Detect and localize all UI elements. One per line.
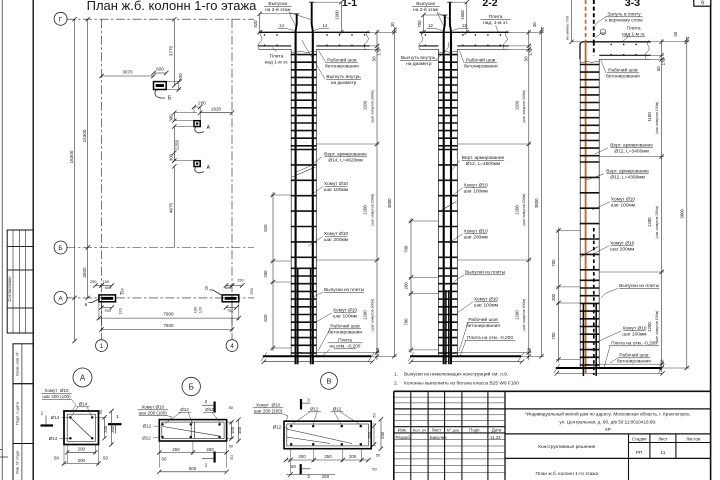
- svg-text:300: 300: [168, 114, 173, 122]
- svg-text:250: 250: [322, 474, 330, 479]
- detail Б section mark 2 top: [214, 402, 216, 413]
- detail В section mark 3 bottom: [300, 464, 302, 474]
- svg-text:шаг 200 (100): шаг 200 (100): [42, 394, 71, 399]
- svg-text:150: 150: [368, 431, 373, 439]
- dim line 16300: [74, 19, 76, 341]
- svg-text:Ø14: Ø14: [79, 402, 88, 407]
- svg-text:на 2-й этаж: на 2-й этаж: [413, 6, 439, 13]
- section 2-2 construction joint line: [419, 48, 438, 50]
- section 3-3 rebar left bar: [585, 42, 587, 373]
- column В right plan section: [222, 295, 239, 302]
- svg-text:Лист: Лист: [658, 436, 667, 441]
- svg-text:Бакулин: Бакулин: [430, 435, 447, 440]
- svg-text:130: 130: [120, 287, 125, 294]
- section 3-3 30 dim at top: [686, 36, 688, 42]
- section 3-3 stirrup rungs dense bottom: [580, 279, 600, 281]
- svg-text:250: 250: [324, 454, 332, 459]
- svg-text:План ж.б. колонн 1-го этажа: План ж.б. колонн 1-го этажа: [535, 471, 598, 477]
- section 2-2 rebar right bar: [450, 32, 452, 364]
- svg-text:бетонирования: бетонирования: [325, 64, 359, 70]
- svg-text:120: 120: [118, 307, 123, 314]
- svg-text:Рабочий шов: Рабочий шов: [466, 57, 496, 64]
- svg-text:50: 50: [376, 453, 381, 458]
- svg-text:шаг 200мм: шаг 200мм: [610, 247, 634, 253]
- small tick bottom-left margin: [0, 456, 8, 458]
- detail А inner stirrup: [67, 414, 95, 441]
- svg-text:Разраб.: Разраб.: [396, 435, 411, 440]
- section 3-3 stirrup rungs sparse middle: [580, 161, 600, 163]
- svg-text:Инв. N° подл.: Инв. N° подл.: [14, 450, 19, 474]
- svg-text:50: 50: [229, 455, 234, 460]
- svg-text:14: 14: [279, 23, 284, 28]
- detail А right dim 200/300: [104, 417, 106, 438]
- svg-text:Ø12: Ø12: [310, 407, 319, 412]
- section 2-2 column right rail: [456, 49, 458, 356]
- svg-text:170: 170: [376, 48, 381, 56]
- dim line 15300 / 3000: [87, 19, 89, 298]
- section 1-1 construction joint line: [259, 48, 292, 50]
- detail А bottom dim 300: [64, 463, 99, 465]
- column В left plan section: [99, 295, 116, 302]
- svg-text:Рабочий шов: Рабочий шов: [330, 323, 360, 330]
- title block line below header row: [394, 432, 505, 434]
- svg-text:(шаг хомутов 100м): (шаг хомутов 100м): [370, 90, 374, 123]
- svg-text:Подп. и дата: Подп. и дата: [14, 401, 19, 425]
- svg-text:4: 4: [230, 343, 234, 350]
- svg-text:бетонирования: бетонирования: [328, 330, 362, 336]
- svg-text:Ø14: Ø14: [49, 436, 58, 441]
- svg-text:План ж.б. колонн 1-го этажа: План ж.б. колонн 1-го этажа: [87, 0, 258, 13]
- dim 4675 below column А lower: [173, 166, 175, 247]
- svg-text:12: 12: [428, 23, 433, 28]
- title block address cell bottom line: [505, 433, 711, 435]
- svg-text:3: 3: [307, 397, 310, 403]
- svg-text:2-2: 2-2: [482, 0, 497, 9]
- plan axis 4 line: [231, 19, 233, 340]
- dim 600 column Б width: [154, 72, 167, 74]
- svg-text:7900: 7900: [163, 312, 174, 317]
- svg-text:ХР: ХР: [605, 427, 611, 432]
- detail bubble В: [321, 373, 338, 390]
- svg-text:1: 1: [41, 411, 44, 417]
- detail А bottom dim 200: [67, 451, 95, 453]
- detail Б diagonal bar: [163, 427, 220, 437]
- section 2-2 right dimension chain: [528, 30, 530, 361]
- leader to label в left: [89, 299, 101, 303]
- svg-text:1200: 1200: [363, 310, 368, 320]
- svg-text:100: 100: [230, 426, 235, 434]
- svg-text:4675: 4675: [168, 202, 173, 213]
- svg-text:к верхнему слою: к верхнему слою: [605, 19, 643, 24]
- svg-text:1200: 1200: [514, 310, 519, 320]
- svg-text:шаг 100мм: шаг 100мм: [474, 303, 498, 309]
- section 3-3 dashed outlet bars into slab: [585, 0, 587, 42]
- section 3-3 right dimension chain: [661, 39, 663, 372]
- detail bubble А: [73, 368, 92, 387]
- svg-text:150: 150: [237, 278, 244, 283]
- svg-text:(шаг хомутов 200м): (шаг хомутов 200м): [522, 194, 526, 227]
- svg-text:шаг 100мм: шаг 100мм: [333, 314, 357, 320]
- svg-text:250: 250: [90, 279, 97, 284]
- svg-text:шаг 100мм: шаг 100мм: [622, 332, 646, 338]
- section 2-2 30 dim at top: [541, 27, 543, 33]
- svg-text:14: 14: [323, 23, 328, 28]
- section 3-3 slab top line: [583, 41, 651, 43]
- section 1-1 left dimension chain: [272, 192, 274, 351]
- section 2-2 slab top line: [419, 31, 508, 33]
- section 2-2 stirrup rungs sparse middle: [438, 149, 458, 151]
- svg-text:11.24: 11.24: [490, 435, 501, 440]
- svg-text:600: 600: [105, 285, 112, 290]
- dim 3070 to column Б: [102, 75, 154, 77]
- detail В outer stirrup rect: [284, 421, 371, 449]
- svg-text:2: 2: [205, 463, 208, 469]
- plan axis Б line: [66, 247, 254, 249]
- svg-text:Г: Г: [59, 16, 63, 23]
- section 3-3 slab rebar dots: [610, 44, 612, 46]
- svg-text:шаг 200 (100): шаг 200 (100): [254, 408, 283, 413]
- svg-text:1-1: 1-1: [342, 0, 357, 9]
- detail Б middle stirrup legs: [190, 422, 192, 438]
- detail bubble Б: [182, 377, 200, 395]
- detail Б bottom dims 250 250: [159, 452, 226, 454]
- svg-text:Ø12: Ø12: [205, 407, 214, 412]
- svg-text:Ø14: Ø14: [51, 415, 60, 420]
- svg-text:1600: 1600: [460, 10, 465, 20]
- section 3-3 dim не менее 700: [571, 0, 573, 42]
- svg-text:Кол. уч: Кол. уч: [413, 428, 426, 433]
- axis bubble 1: [96, 340, 108, 352]
- svg-text:3800: 3800: [679, 209, 684, 219]
- svg-text:Б: Б: [58, 245, 62, 252]
- section 1-1 stirrup rungs sparse middle: [291, 149, 317, 151]
- svg-text:Рабочий шов: Рабочий шов: [619, 352, 649, 359]
- svg-text:2250: 2250: [175, 139, 180, 150]
- svg-text:200: 200: [404, 282, 409, 290]
- section 1-1 bottom extent dim: [264, 361, 373, 363]
- svg-text:бетонирования: бетонирования: [606, 74, 640, 80]
- section 2-2 rebar left bar: [443, 32, 445, 364]
- detail Б inner stirrup: [162, 422, 224, 438]
- svg-text:(шаг хомутов 100м): (шаг хомутов 100м): [522, 90, 526, 123]
- detail В diagonal bars: [286, 429, 352, 444]
- section 1-1 stirrup rungs dense top: [291, 54, 317, 56]
- axis bubble Г: [54, 12, 67, 25]
- svg-text:Рабочий шов: Рабочий шов: [468, 316, 498, 323]
- svg-text:820: 820: [263, 314, 268, 322]
- svg-text:170: 170: [528, 48, 533, 56]
- section 1-1 starter bar stubs from slab: [297, 269, 299, 364]
- svg-text:50: 50: [523, 56, 528, 61]
- svg-text:200: 200: [198, 100, 206, 105]
- svg-text:820: 820: [263, 224, 268, 232]
- svg-text:шаг 200мм: шаг 200мм: [324, 237, 348, 243]
- svg-text:3800: 3800: [387, 198, 392, 208]
- svg-text:200: 200: [103, 425, 108, 433]
- svg-text:Б: Б: [189, 382, 194, 391]
- section 1-1 concrete break wave bottom: [291, 352, 316, 353]
- svg-text:750: 750: [227, 308, 234, 313]
- section 3-3 column left rail: [579, 59, 581, 368]
- dim 7900: [99, 317, 239, 319]
- detail А diagonal bar: [70, 418, 92, 439]
- section 2-2 concrete break wave top: [439, 51, 458, 52]
- svg-text:50: 50: [659, 359, 664, 364]
- approval box (Согласовано): [7, 230, 33, 333]
- svg-text:Листов: Листов: [686, 436, 701, 441]
- svg-text:50: 50: [291, 464, 296, 469]
- svg-text:170: 170: [661, 58, 666, 66]
- section 3-3 concrete break wave bottom: [580, 364, 599, 365]
- svg-text:3800: 3800: [534, 198, 539, 208]
- svg-text:50: 50: [229, 405, 234, 410]
- section 3-3 column right rail: [598, 59, 600, 368]
- svg-text:бетонирования: бетонирования: [617, 359, 651, 365]
- title block row line 458: [394, 458, 505, 460]
- svg-text:50: 50: [656, 66, 661, 71]
- svg-text:Б: Б: [168, 96, 172, 102]
- svg-text:Ø14, L=4620мм: Ø14, L=4620мм: [328, 158, 362, 164]
- leader to label В right: [210, 290, 224, 296]
- svg-text:120: 120: [198, 306, 203, 313]
- section 1-1 rebar outlets above slab: [296, 14, 297, 33]
- detail А corner bar dots: [69, 416, 72, 419]
- svg-text:1200: 1200: [647, 322, 652, 332]
- section 1-1 concrete break wave top: [291, 51, 316, 52]
- svg-text:260: 260: [263, 270, 268, 278]
- detail Б bar dots: [161, 423, 164, 426]
- section 2-2 diagonal brace: [440, 202, 457, 212]
- frame inner left border: [32, 0, 34, 480]
- section 3-3 slab break marks: [645, 40, 650, 59]
- section 2-2 column left rail: [438, 49, 440, 356]
- svg-text:Дата: Дата: [492, 428, 502, 433]
- section 3-3 stirrup rungs dense top: [580, 64, 600, 66]
- svg-text:шаг 200 (100): шаг 200 (100): [139, 410, 168, 415]
- svg-text:(шаг хомутов 100м): (шаг хомутов 100м): [370, 299, 374, 332]
- section 1-1 slab bottom line: [259, 45, 292, 47]
- svg-text:700: 700: [404, 318, 409, 326]
- svg-text:1900: 1900: [334, 10, 339, 20]
- svg-text:1920: 1920: [211, 106, 222, 111]
- leader to label А lower: [195, 167, 204, 174]
- svg-text:Ø12: Ø12: [333, 407, 342, 412]
- detail А section mark 1 right: [108, 423, 122, 425]
- column Б plan section: [154, 82, 167, 90]
- section 1-1 30 dim at top: [393, 27, 395, 33]
- detail А outer stirrup square: [64, 411, 99, 445]
- svg-text:А: А: [58, 295, 63, 302]
- svg-text:Изм.: Изм.: [398, 428, 407, 433]
- svg-text:50: 50: [103, 456, 108, 461]
- svg-text:Рабочий шов: Рабочий шов: [608, 67, 638, 74]
- svg-text:11: 11: [660, 450, 665, 456]
- corner sheet-number box top right: [694, 0, 711, 6]
- svg-text:Ø12, L=3400мм: Ø12, L=3400мм: [614, 149, 648, 155]
- detail В bottom dim 250 partial: [286, 474, 335, 476]
- dim 3775 axis Г to column Б: [173, 19, 175, 85]
- svg-text:N° док.: N° док.: [447, 428, 460, 433]
- section 3-3 rebar right bar: [593, 228, 595, 375]
- svg-text:600: 600: [189, 466, 197, 471]
- section 1-1 slab top line: [259, 31, 370, 33]
- dim 200 column Б height: [178, 82, 180, 90]
- title block stage column lines: [628, 434, 630, 480]
- svg-text:2: 2: [205, 399, 208, 405]
- dim 2250 between А columns: [173, 127, 175, 161]
- detail Б outer stirrup rect: [159, 420, 226, 441]
- svg-text:12: 12: [462, 23, 467, 28]
- svg-text:Плита: Плита: [627, 26, 641, 32]
- detail В bar dots: [290, 425, 293, 428]
- svg-text:Согласовано: Согласовано: [7, 276, 12, 302]
- svg-text:30: 30: [673, 31, 678, 36]
- svg-text:1200: 1200: [514, 205, 519, 215]
- section 1-1 dim 820 outlet: [259, 14, 261, 33]
- svg-text:бетонирования: бетонирования: [464, 64, 498, 70]
- section 1-1 overall 3800 dim line: [393, 32, 395, 356]
- svg-text:3775: 3775: [168, 45, 173, 56]
- svg-text:820: 820: [253, 20, 258, 28]
- detail Б section mark 2 bottom: [214, 452, 216, 463]
- svg-text:50: 50: [527, 347, 532, 352]
- title block thin row lines lower left: [394, 439, 505, 441]
- svg-text:50: 50: [372, 56, 377, 61]
- svg-text:250: 250: [249, 287, 254, 294]
- section 1-1 slab rebar dots: [264, 34, 266, 36]
- section 3-3 symbol circle: [600, 29, 606, 35]
- svg-text:шаг 100мм: шаг 100мм: [611, 203, 635, 209]
- section 2-2 left dimension chain: [410, 218, 412, 353]
- section 2-2 concrete break wave bottom: [439, 352, 458, 353]
- svg-text:на диаметр: на диаметр: [331, 81, 357, 86]
- section 2-2 stirrup rungs dense top: [438, 54, 458, 56]
- svg-text:*Индивидуальный жилой дом по а: *Индивидуальный жилой дом по адресу: Мос…: [525, 411, 691, 417]
- title block horizontal band line: [394, 408, 711, 410]
- section 3-3 construction joint line: [599, 58, 651, 60]
- section 2-2 bottom slab break marks: [408, 352, 414, 361]
- svg-text:на 2-й этаж: на 2-й этаж: [265, 6, 291, 13]
- svg-text:Хомут Ø10: Хомут Ø10: [141, 405, 164, 410]
- section 1-1 rebar right bar: [312, 32, 314, 364]
- svg-text:(шаг хомутов 100м): (шаг хомутов 100м): [655, 311, 659, 344]
- svg-text:600: 600: [156, 66, 164, 71]
- section 2-2 stirrup rungs dense bottom: [438, 267, 458, 269]
- svg-text:Ø12, L=4500мм: Ø12, L=4500мм: [466, 161, 500, 167]
- svg-text:Стадия: Стадия: [632, 436, 647, 441]
- svg-text:2.: 2.: [394, 381, 398, 387]
- section 3-3 right chain extension lines: [651, 41, 690, 43]
- svg-text:30: 30: [390, 22, 395, 27]
- svg-text:200: 200: [298, 454, 306, 459]
- plan axis 1 line: [101, 19, 103, 340]
- section 1-1 column left rail: [290, 49, 292, 356]
- svg-text:290: 290: [380, 431, 385, 439]
- svg-text:50: 50: [229, 444, 234, 449]
- svg-text:30: 30: [532, 22, 537, 27]
- svg-text:50: 50: [54, 456, 59, 461]
- section 3-3 starter bar stubs from slab: [582, 303, 584, 376]
- svg-text:300: 300: [110, 425, 115, 433]
- detail Б right dims: [231, 422, 233, 438]
- svg-text:В: В: [205, 286, 208, 292]
- section 1-1 bottom slab line: [263, 355, 372, 357]
- dim 300 column А lower: [173, 153, 175, 161]
- svg-text:1100: 1100: [363, 100, 368, 110]
- detail А section mark 1 left: [41, 424, 54, 426]
- plan axis А line: [66, 297, 254, 299]
- section 3-3 concrete break wave top: [580, 61, 599, 62]
- dim 7600: [102, 329, 233, 331]
- svg-text:300: 300: [168, 153, 173, 161]
- section 1-1 slab break marks: [258, 30, 263, 49]
- svg-text:Ø12, L=4300мм: Ø12, L=4300мм: [610, 175, 644, 181]
- section 2-2 dim 1600 outlet: [466, 2, 468, 32]
- section 1-1 right dimension chain: [376, 30, 378, 361]
- section 1-1 column right rail: [315, 49, 317, 356]
- svg-text:Подп.: Подп.: [469, 428, 480, 433]
- svg-text:1100: 1100: [647, 112, 652, 122]
- section 1-1 dim 1900 outlet: [340, 2, 342, 32]
- svg-text:Хомут Ø10: Хомут Ø10: [45, 388, 69, 393]
- svg-text:700: 700: [551, 332, 556, 340]
- column А lower plan section: [194, 161, 200, 167]
- svg-text:Плита: Плита: [270, 54, 284, 60]
- svg-text:Выпуски из нижележащих констру: Выпуски из нижележащих конструкций см. л…: [404, 370, 508, 377]
- title block line above header row: [394, 426, 505, 428]
- svg-text:1: 1: [116, 414, 119, 420]
- section 2-2 slab rebar dots: [425, 34, 427, 36]
- svg-text:50: 50: [372, 413, 377, 418]
- svg-text:250: 250: [172, 447, 180, 452]
- section 2-2 starter bar stubs from slab: [445, 290, 447, 364]
- svg-text:3-3: 3-3: [625, 0, 640, 9]
- svg-text:Ø12: Ø12: [180, 407, 189, 412]
- svg-text:9: 9: [701, 1, 704, 7]
- svg-text:1.: 1.: [394, 371, 398, 377]
- svg-text:200: 200: [551, 293, 556, 301]
- svg-text:50: 50: [372, 467, 377, 472]
- svg-text:Рабочий шов: Рабочий шов: [327, 57, 357, 64]
- svg-text:Ø12: Ø12: [273, 425, 282, 430]
- leader to label А upper: [195, 127, 204, 134]
- section 2-2 overall 3800 dim line: [541, 32, 543, 356]
- svg-text:3070: 3070: [122, 69, 133, 74]
- svg-text:600: 600: [225, 285, 232, 290]
- svg-text:200: 200: [78, 447, 86, 452]
- section 2-2 slab bottom line: [419, 45, 438, 47]
- svg-text:(шаг хомутов 100м): (шаг хомутов 100м): [522, 299, 526, 332]
- sheet left paper edge: [1, 0, 3, 480]
- svg-text:(шаг хомутов 200м): (шаг хомутов 200м): [370, 194, 374, 227]
- section 3-3 bottom extent dim: [557, 372, 663, 374]
- section 3-3 overall 3800 dim line: [686, 42, 688, 368]
- svg-text:шаг 200мм: шаг 200мм: [464, 235, 488, 241]
- section 2-2 right chain extension lines: [509, 31, 544, 33]
- column А upper plan section: [194, 121, 200, 127]
- section 1-1 diagonal brace: [292, 167, 315, 177]
- dim 200 above column А: [194, 106, 200, 108]
- section 3-3 slab bottom line: [599, 54, 651, 56]
- dim 300 column А upper: [173, 113, 175, 121]
- svg-text:в: в: [85, 303, 88, 308]
- section 2-2 slab break marks: [419, 30, 424, 49]
- svg-text:15300: 15300: [82, 129, 87, 142]
- svg-text:200: 200: [349, 454, 357, 459]
- svg-text:50: 50: [98, 409, 103, 414]
- section 2-2 rebar outlets above slab: [444, 15, 445, 32]
- svg-text:В: В: [327, 377, 332, 386]
